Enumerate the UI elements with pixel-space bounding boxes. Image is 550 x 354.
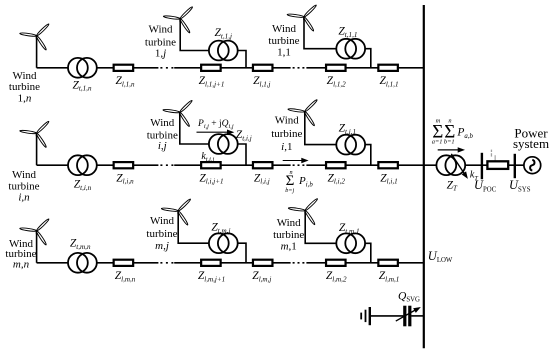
svg-text:Zl,m,n: Zl,m,n [115,270,136,283]
svg-text:Pa,b: Pa,b [456,127,473,140]
transformer Zt,1,j [209,41,238,61]
svg-text:m,1: m,1 [281,241,297,253]
impedance Zl,1,j box [253,65,273,71]
wind turbine WTm,j rotor [161,198,191,225]
impedance Zl,m,n box [114,260,133,266]
svg-text:Zt,i,j: Zt,i,j [236,129,252,142]
svg-text:system: system [513,136,549,151]
svg-text:b=1: b=1 [444,138,455,145]
svg-text:i,1: i,1 [281,141,292,153]
svg-text:i,j: i,j [158,140,167,152]
transformer Zt,m,j [209,233,238,253]
svg-text:Zt,m,n: Zt,m,n [70,238,91,251]
label Power system [513,125,549,151]
impedance Zl,1,j+1 box [201,65,221,71]
wire dots continuation right of string m [293,262,306,264]
impedance Zl,i,n box [114,162,133,168]
svg-text:Zt,i,1: Zt,i,1 [339,123,356,136]
svg-text:Zl,m,j+1: Zl,m,j+1 [198,270,225,283]
svg-text:Zl,i,2: Zl,i,2 [327,172,345,185]
svg-text:Wind: Wind [149,24,173,36]
wind turbine WTm,n tower wire [36,231,38,263]
svg-text:USYS: USYS [509,178,531,193]
wind turbine WT1,n tower wire [36,36,38,68]
node USYS bus tick [514,154,516,178]
label sum Pib [285,169,313,194]
svg-text:Zl,1,j: Zl,1,j [253,75,270,88]
wire string m segment C to bus [306,262,423,264]
label Wind turbine 1,n [9,70,40,104]
wind turbine WTm,n rotor [20,218,50,245]
wind turbine WTi,n tower wire [36,133,38,165]
wind turbine WT1,j rotor [163,6,193,33]
wire dots continuation right of string 1 [293,67,306,69]
transformer Zt,i,1 [336,135,365,155]
svg-text:Wind: Wind [277,217,301,229]
label Wind turbine i,n [8,169,39,203]
transformer Zt,m,n [68,253,97,273]
wire string 1 segment A [37,67,159,69]
arrow sum Pib flow direction [283,158,309,163]
wire string m segment A [37,262,159,264]
svg-text:Zt,m,j: Zt,m,j [211,222,230,235]
svg-text:n: n [448,117,451,124]
svg-text:Zt,1,j: Zt,1,j [215,27,232,40]
svg-text:a=1: a=1 [432,138,443,145]
wire string i segment B [174,164,290,166]
svg-text:m: m [436,117,441,124]
svg-text:turbine: turbine [146,228,177,240]
impedance Zl,1,n box [114,65,133,71]
wire SVG branch ground to capacitor [371,315,404,317]
arrow total power flow direction [438,147,465,152]
label Wind turbine 1,1 [268,23,299,58]
ground SVG reference [360,307,371,325]
svg-text:Zl,m,2: Zl,m,2 [326,270,347,283]
wind turbine WT1,j tower wire [180,19,246,68]
arrow ZT tap changer [451,154,470,181]
svg-text:n: n [290,169,293,176]
svg-text:ULOW: ULOW [428,249,453,264]
wire bus to grid transformer [424,164,524,166]
impedance Zl,1,2 box [326,65,346,71]
wind turbine WTm,1 rotor [288,198,318,225]
impedance Zl,m,j box [253,260,273,266]
impedance Zl,i,j box [253,162,273,168]
label Wind turbine m,1 [273,217,304,253]
svg-text:ZT: ZT [447,179,458,192]
wind turbine WTi,1 tower wire [305,112,371,166]
node UPOC bus tick [481,153,483,179]
svg-text:m,j: m,j [155,240,169,252]
label Wind turbine 1,j [145,24,176,60]
svg-text:Wind: Wind [12,169,36,181]
svg-text:Wind: Wind [150,117,174,129]
svg-text:Zl,1,j+1: Zl,1,j+1 [199,75,225,88]
wind turbine WTi,1 rotor [288,99,318,126]
ac source power system circle [524,157,541,174]
label faint current marks [491,150,496,161]
arrow Pij power flow direction [197,130,235,135]
wind turbine WT1,1 rotor [287,4,317,31]
wire dots continuation left of string 1 [160,67,174,69]
svg-text:Wind: Wind [275,115,299,127]
svg-text:Zt,1,n: Zt,1,n [72,79,91,92]
svg-text:Zl,1,n: Zl,1,n [115,75,134,88]
transformer ZT grid [436,155,465,175]
svg-text:Wind: Wind [13,70,37,82]
impedance Zl,m,j+1 box [201,260,221,266]
wire string 1 segment C to bus [306,67,423,69]
transformer Zt,i,j [209,134,238,154]
wire dots continuation left of string m [160,262,174,264]
wire dots continuation right of string i [293,164,306,166]
transformer Zt,i,n [68,155,97,175]
svg-text:Wind: Wind [150,215,174,227]
svg-text:1,1: 1,1 [277,46,291,58]
wind turbine WT1,n rotor [20,23,50,50]
transformer Zt,1,n [68,58,97,78]
wind turbine WTi,j tower wire [180,112,246,165]
svg-text:Zl,1,2: Zl,1,2 [327,75,346,88]
arrow variable capacitor [396,305,422,321]
label Wind turbine m,n [5,238,36,271]
wind turbine WTm,1 tower wire [305,211,371,263]
svg-text:Zt,1,1: Zt,1,1 [338,26,357,39]
impedance Zl,m,2 box [326,260,346,266]
svg-text:turbine: turbine [273,229,304,241]
wind turbine WTm,j tower wire [178,211,246,263]
wire string m segment B [174,262,290,264]
svg-text:i,n: i,n [18,191,30,203]
impedance grid line box [487,161,508,169]
svg-text:Zl,m,j: Zl,m,j [252,270,271,283]
transformer Zt,m,1 [336,233,365,253]
svg-text:Zt,m,1: Zt,m,1 [339,222,360,235]
wind turbine WTi,n rotor [20,121,50,148]
impedance Zl,i,2 box [326,162,346,168]
label Wind turbine i,1 [271,115,302,153]
wind turbine WTi,j rotor [163,100,193,127]
svg-text:UPOC: UPOC [474,178,497,193]
svg-text:turbine: turbine [271,128,302,140]
svg-text:Zl,i,n: Zl,i,n [116,172,134,185]
impedance Zl,m,1 box [378,260,398,266]
impedance Zl,i,1 box [378,162,398,168]
label Wind turbine m,j [146,215,177,252]
wire SVG branch capacitor to bus [411,315,424,317]
bus vertical collector busbar [423,5,425,348]
label double sum Pab [432,117,474,145]
wire string i segment A [37,164,159,166]
wire string 1 segment B [174,67,290,69]
svg-text:Zl,1,1: Zl,1,1 [379,75,398,88]
svg-text:m,n: m,n [13,259,30,271]
transformer Zt,1,1 [336,39,365,59]
svg-text:Zl,i,j: Zl,i,j [254,172,270,185]
capacitor QSVG variable [403,306,411,327]
svg-text:1,n: 1,n [18,92,32,104]
svg-text:Zt,i,n: Zt,i,n [74,179,92,192]
svg-text:1,j: 1,j [155,47,166,59]
svg-text:Pi,b: Pi,b [298,175,313,188]
svg-text:Wind: Wind [272,23,296,35]
svg-text:b=j: b=j [285,187,294,194]
svg-text:QSVG: QSVG [398,290,420,303]
wire string i segment C to bus [306,164,423,166]
wind turbine WT1,1 tower wire [304,17,371,68]
svg-text:Zl,m,1: Zl,m,1 [379,270,400,283]
wire dots continuation left of string i [160,164,174,166]
svg-text:Zl,i,j+1: Zl,i,j+1 [199,172,223,185]
impedance Zl,1,1 box [378,65,398,71]
svg-text:turbine: turbine [268,35,299,47]
svg-text:Pi,j + jQi,j: Pi,j + jQi,j [197,119,234,130]
label Wind turbine i,j [147,117,178,152]
svg-text:Zl,i,1: Zl,i,1 [380,172,397,185]
impedance Zl,i,j+1 box [201,162,221,168]
